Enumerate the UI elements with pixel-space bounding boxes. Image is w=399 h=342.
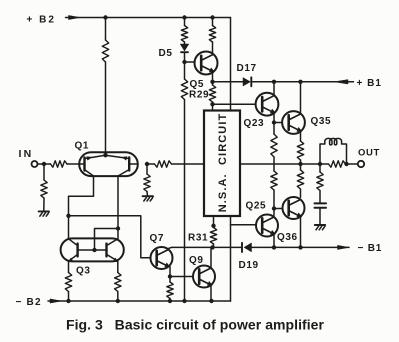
transistor Q9 xyxy=(193,266,215,288)
transistor Q35 xyxy=(282,111,305,134)
label D19 xyxy=(239,260,259,271)
capacitor zobel xyxy=(315,203,327,224)
wire Q1 right collector xyxy=(117,176,119,239)
power arrow +B1 xyxy=(334,80,348,84)
wire branch to Q7 base xyxy=(69,216,151,258)
resistor feedback series xyxy=(147,161,204,167)
resistor input shunt xyxy=(41,164,47,211)
svg-text:Q3: Q3 xyxy=(76,266,91,277)
svg-text:OUT: OUT xyxy=(358,148,380,159)
label Q35 xyxy=(311,116,332,127)
node -B2 / Q9 emitter xyxy=(209,299,213,303)
wire D5 column long down xyxy=(184,100,186,302)
label Q23 xyxy=(244,118,265,129)
wire Q7 emitter xyxy=(169,267,171,277)
resistor Q36 collector xyxy=(297,164,303,197)
label -B2 xyxy=(16,297,42,308)
resistor Q25 collector chain xyxy=(271,171,277,215)
resistor output parallel xyxy=(320,161,347,167)
diode D19 xyxy=(242,243,252,252)
transistor Q36 xyxy=(283,197,305,219)
node Q1 left collector / Q7 branch xyxy=(66,214,70,218)
node Q7 emitter / Q9 base xyxy=(168,274,172,278)
label R31 xyxy=(188,232,208,243)
wire Q23 collector xyxy=(273,82,275,96)
transistor pair Q3 xyxy=(61,238,124,262)
label Q5 xyxy=(190,79,205,90)
resistor feedback shunt xyxy=(144,164,150,196)
wire right column to -B2 rail xyxy=(230,216,232,301)
node OUT rail / inductor right xyxy=(344,162,348,166)
node Q3 base tie xyxy=(116,226,120,230)
resistor bias lower xyxy=(181,62,187,100)
wire Q23 emitter xyxy=(273,113,275,123)
inductor output xyxy=(320,138,347,164)
svg-text:IN: IN xyxy=(19,148,34,160)
node R29 / Q23 base xyxy=(210,102,214,106)
wire Q9 emitter xyxy=(210,285,212,301)
svg-text:Q25: Q25 xyxy=(246,201,267,212)
wire Q35 collector xyxy=(300,82,302,114)
wire Q5 base xyxy=(185,61,196,63)
svg-text:Q36: Q36 xyxy=(277,232,298,243)
resistor Q3 left emitter xyxy=(65,261,71,301)
diode D5 xyxy=(180,44,189,62)
wire Q25 base xyxy=(231,224,257,226)
transistor Q5 xyxy=(195,52,218,75)
transistor Q7 xyxy=(151,247,173,269)
label D17 xyxy=(237,63,257,74)
node D17 rail / Q23 collector xyxy=(272,80,276,84)
node -B2 / D5 column xyxy=(182,299,186,303)
wire Q35 base xyxy=(274,122,282,124)
wire Q36 emitter xyxy=(300,217,302,248)
node -B2 / Q7 emitter resistor xyxy=(168,299,172,303)
power rail +B2 xyxy=(66,15,231,19)
svg-text:N.S.A. CIRCUIT: N.S.A. CIRCUIT xyxy=(217,113,229,213)
wire Q3 base jog xyxy=(95,229,119,251)
svg-text:Q35: Q35 xyxy=(311,116,332,127)
node D19 rail / Q25 emitter xyxy=(272,245,276,249)
wire top rail corner down xyxy=(230,18,232,111)
label OUT xyxy=(358,148,380,159)
svg-text:R29: R29 xyxy=(189,89,209,100)
node Q5 emitter / D17 rail xyxy=(210,80,214,84)
resistor zobel xyxy=(317,164,323,203)
svg-text:− B1: − B1 xyxy=(358,243,383,254)
resistor Q7 emitter xyxy=(167,277,173,302)
svg-text:− B2: − B2 xyxy=(16,297,42,308)
resistor R29 xyxy=(209,82,215,104)
node D17 rail / Q35 collector xyxy=(298,80,302,84)
wire OUT rail xyxy=(240,163,320,165)
power arrow -B1 xyxy=(338,245,350,249)
resistor input series xyxy=(44,161,80,167)
wire Q25 emitter xyxy=(273,234,275,247)
resistor Q23 emitter chain upper xyxy=(271,123,277,172)
svg-text:D17: D17 xyxy=(237,63,257,74)
svg-text:Q23: Q23 xyxy=(244,118,265,129)
node D19 rail / Q36 emitter xyxy=(298,245,302,249)
svg-text:+ B2: + B2 xyxy=(27,14,56,25)
node OUT rail / zobel-inductor xyxy=(318,162,322,166)
terminal OUT xyxy=(358,161,364,167)
resistor tail current source xyxy=(102,18,108,156)
label +B1 xyxy=(357,78,382,89)
svg-text:D5: D5 xyxy=(159,48,173,59)
resistor Q35 emitter xyxy=(297,131,303,164)
ground feedback shunt xyxy=(143,196,153,201)
label IN xyxy=(19,148,34,160)
svg-text:+ B1: + B1 xyxy=(357,78,382,89)
label -B1 xyxy=(358,243,383,254)
transistor Q23 xyxy=(256,93,279,116)
label Q3 xyxy=(76,266,91,277)
node top rail / Q5 collector column xyxy=(210,15,214,19)
node top rail / tail resistor xyxy=(103,15,107,19)
resistor Q5 collector load xyxy=(209,18,215,54)
wire to OUT terminal xyxy=(347,163,358,165)
svg-text:Q5: Q5 xyxy=(190,79,205,90)
node top rail / D5 column xyxy=(182,15,186,19)
label Q7 xyxy=(150,233,165,244)
label N.S.A. CIRCUIT xyxy=(217,113,229,213)
label Q9 xyxy=(189,255,204,266)
node Q23 emitter / Q35 base xyxy=(272,120,276,124)
wire IN to node xyxy=(38,163,45,165)
label Q36 xyxy=(277,232,298,243)
resistor Q3 right emitter xyxy=(115,261,121,301)
wire Q23 base xyxy=(213,103,256,105)
wire Q1 left collector jog xyxy=(69,176,94,239)
label Q25 xyxy=(246,201,267,212)
node Q1 joined emitters xyxy=(103,153,107,157)
svg-text:Q1: Q1 xyxy=(75,141,90,152)
transistor Q25 xyxy=(256,215,278,237)
resistor bias upper xyxy=(181,18,187,45)
node Q3 joined bases xyxy=(92,248,96,252)
svg-text:D19: D19 xyxy=(239,260,259,271)
wire Q9 collector xyxy=(210,247,212,268)
svg-text:Q7: Q7 xyxy=(150,233,165,244)
svg-text:R31: R31 xyxy=(188,232,208,243)
transistor pair Q1 xyxy=(79,152,138,176)
wire Q7 collector to R31 node xyxy=(168,247,213,248)
wire box bottom stub xyxy=(213,216,215,226)
node -B2 / Q3 left emitter xyxy=(66,299,70,303)
ground zobel xyxy=(315,225,325,230)
power rail -B2 xyxy=(48,299,231,303)
block N.S.A. CIRCUIT xyxy=(204,111,240,217)
wire Q9 base xyxy=(170,276,193,278)
svg-text:Fig. 3 Basic circuit of powe: Fig. 3 Basic circuit of power amplifier xyxy=(66,317,325,333)
node D5 / Q5 base xyxy=(182,60,186,64)
wire box top stub left xyxy=(212,104,214,110)
caption xyxy=(66,317,325,333)
wire D17 rail xyxy=(213,81,354,83)
wire Q5 emitter xyxy=(212,72,214,82)
node box stub / R31 xyxy=(211,224,215,228)
svg-text:Q9: Q9 xyxy=(189,255,204,266)
terminal IN xyxy=(32,161,38,167)
node input xyxy=(42,162,46,166)
node Q36 base / Q25 collector xyxy=(272,206,276,210)
label D5 xyxy=(159,48,173,59)
label R29 xyxy=(189,89,209,100)
node R31 / D19 rail xyxy=(210,245,214,249)
ground input xyxy=(39,211,49,216)
wire Q36 base xyxy=(274,208,283,210)
wire D19 rail xyxy=(214,246,350,248)
node -B2 / Q3 right emitter xyxy=(116,299,120,303)
node OUT rail / Q35-Q36 xyxy=(298,162,302,166)
label Q1 xyxy=(75,141,90,152)
node Q1 right base xyxy=(145,162,149,166)
resistor R31 xyxy=(210,228,216,248)
diode D17 xyxy=(243,77,251,86)
label +B2 xyxy=(27,14,56,25)
